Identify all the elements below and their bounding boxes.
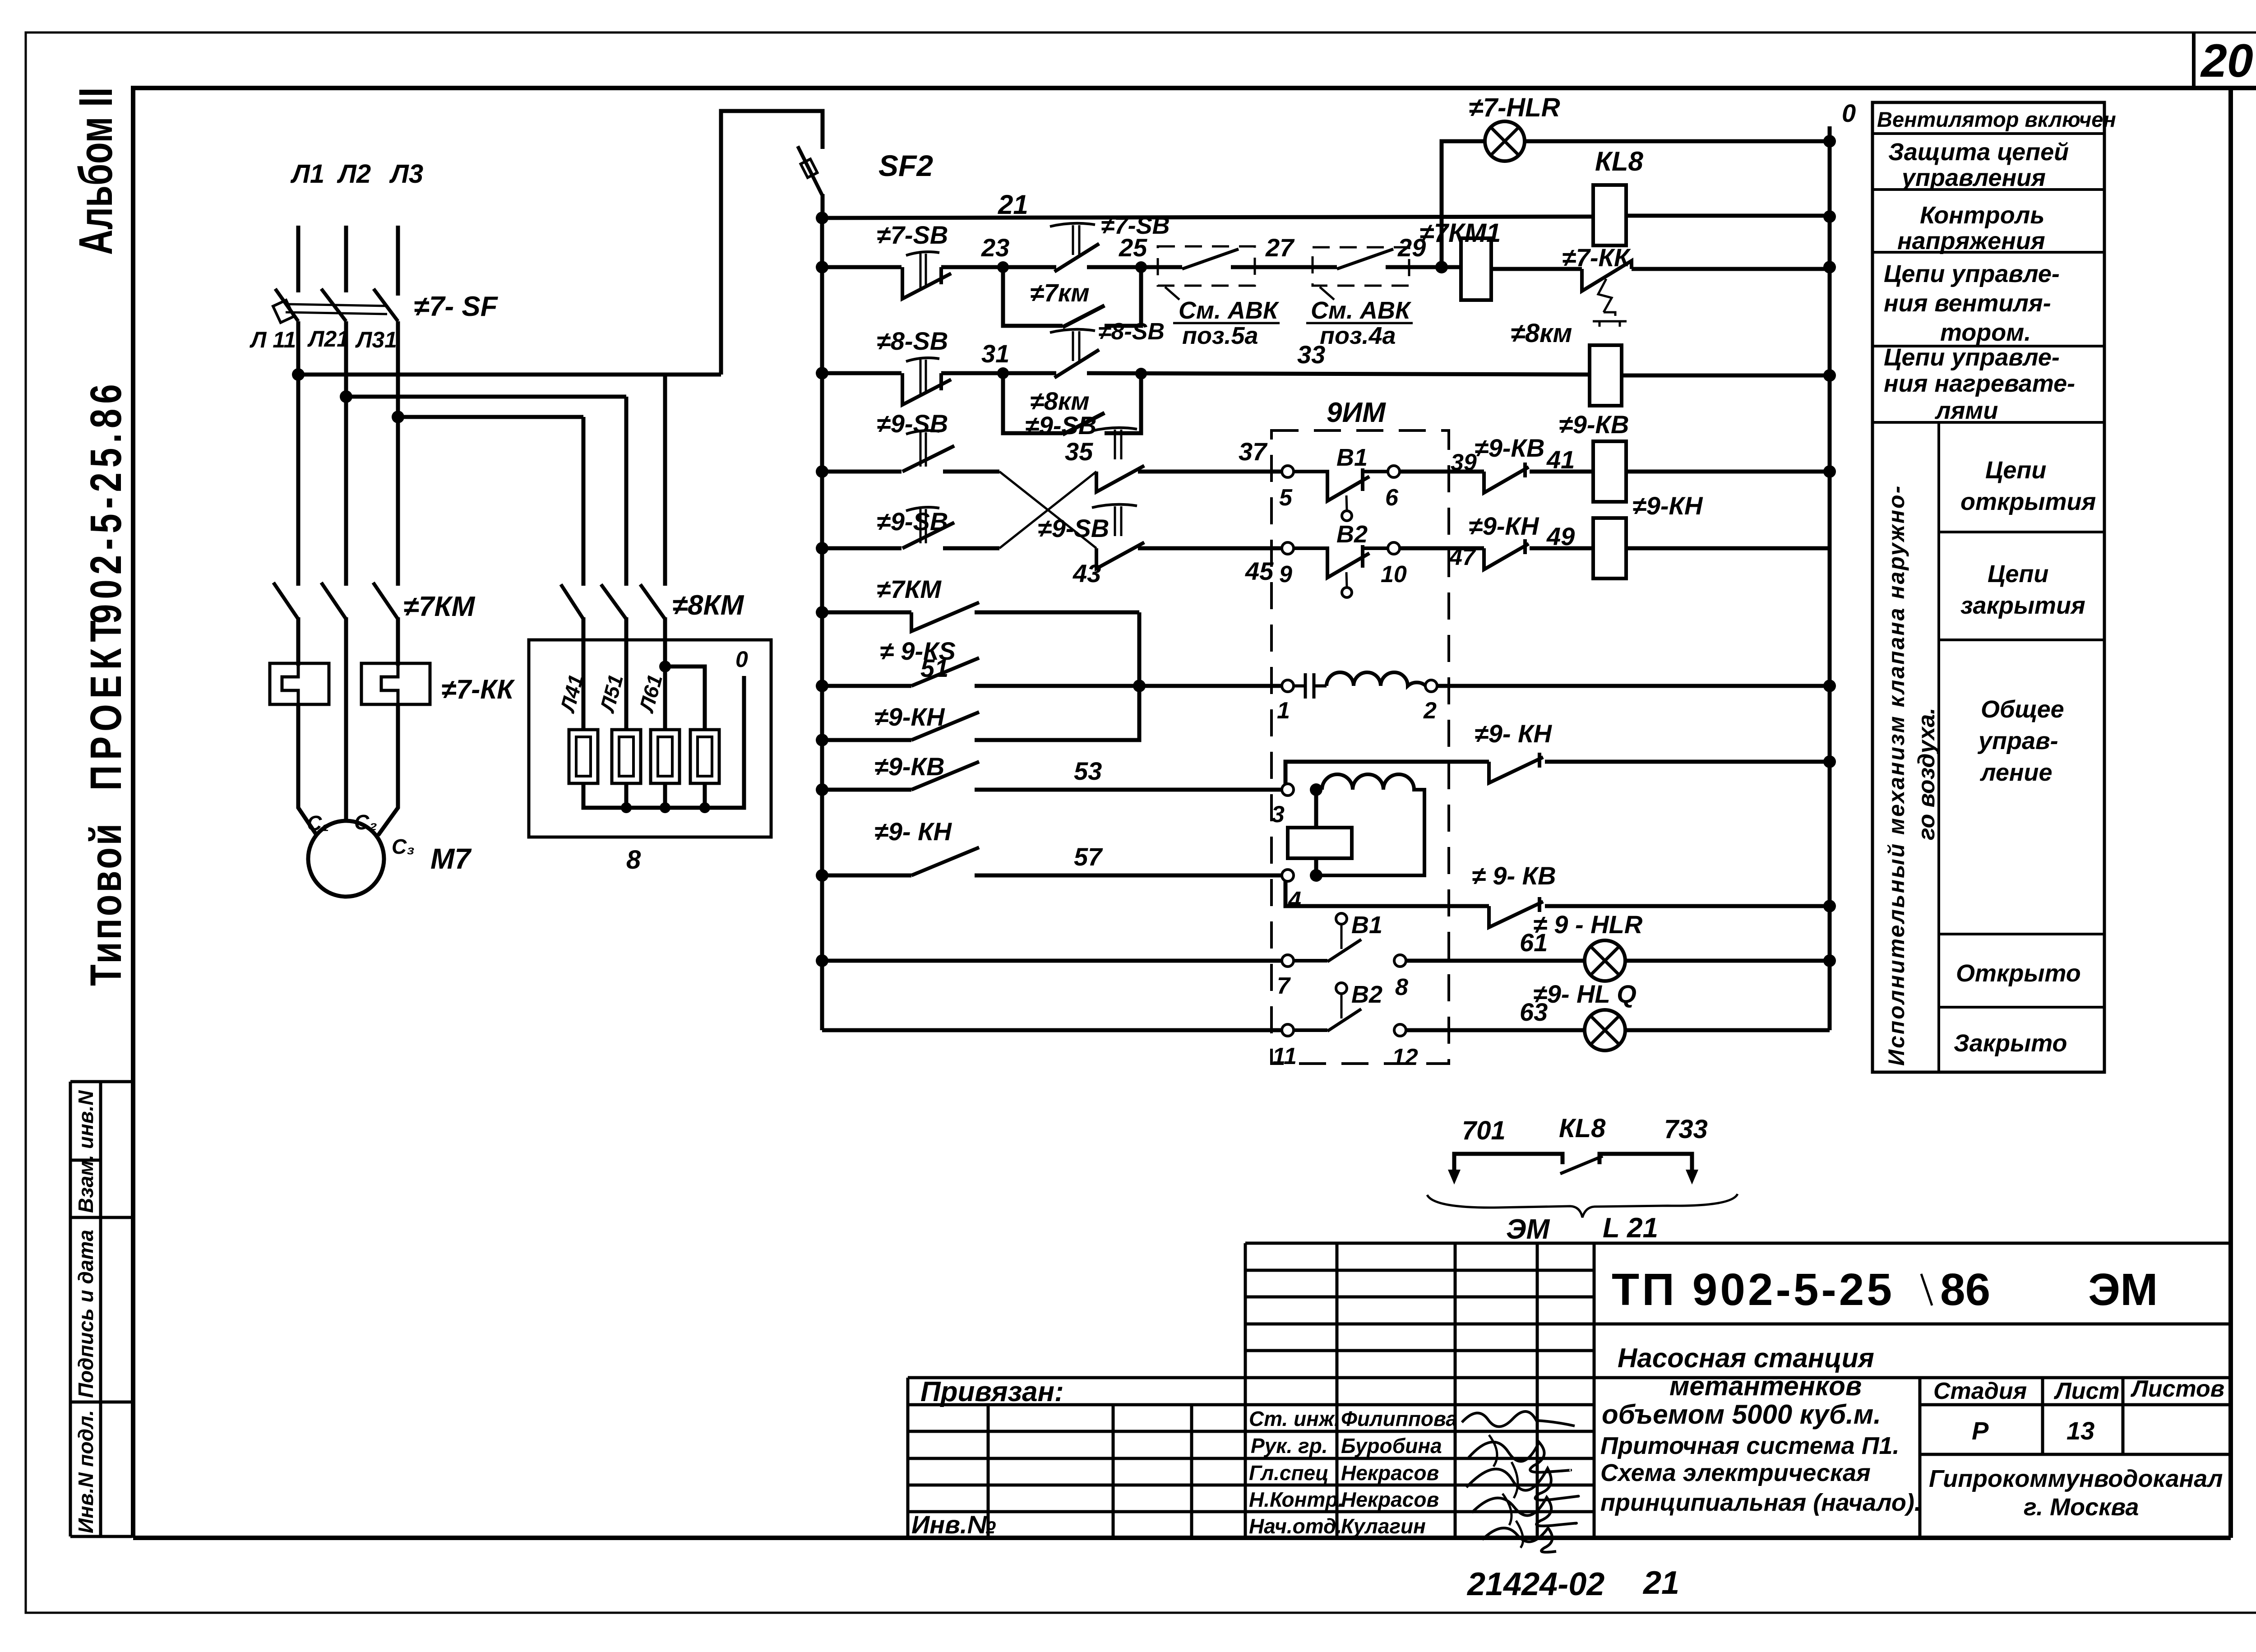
wire R6 drop (1137, 612, 1142, 686)
wire R5 b (943, 546, 999, 551)
svg-text:L 21: L 21 (1603, 1212, 1658, 1244)
aux switch B1 (1294, 913, 1361, 962)
svg-text:управ-: управ- (1977, 727, 2058, 754)
wire L31 branch (398, 415, 583, 419)
bus junction R11 (816, 954, 828, 967)
wire R10 b (975, 874, 1282, 878)
svg-text:≠ 9- КВ: ≠ 9- КВ (1472, 861, 1556, 890)
svg-text:Подпись и дата: Подпись и дата (74, 1230, 97, 1398)
bus junction R6 (816, 606, 828, 619)
actuator capacitor rect (1288, 828, 1352, 858)
wire R2 d (1255, 265, 1313, 269)
node 31 (997, 367, 1009, 379)
svg-text:6: 6 (1385, 485, 1399, 511)
svg-text:27: 27 (1265, 233, 1295, 262)
signatures (1462, 1411, 1579, 1552)
svg-text:C₃: C₃ (392, 835, 415, 858)
svg-text:лями: лями (1934, 397, 1998, 424)
bus dot R8b (1823, 755, 1836, 768)
terminal 10 (1388, 542, 1400, 554)
svg-text:Инв.№: Инв.№ (911, 1510, 996, 1539)
svg-text:Р: Р (1972, 1416, 1989, 1445)
wire heater feed1 (582, 617, 586, 731)
svg-text:SF2: SF2 (878, 149, 933, 182)
junction heater bottom4 (699, 802, 710, 813)
bus junction R10 (816, 869, 828, 882)
svg-text:Цепи: Цепи (1985, 457, 2046, 484)
svg-text:11: 11 (1272, 1043, 1297, 1069)
bus junction R4 (816, 465, 828, 478)
KL8-DIAGRAM (1427, 1114, 1738, 1245)
svg-text:33: 33 (1297, 340, 1325, 369)
svg-text:закрытия: закрытия (1960, 592, 2085, 619)
svg-text:21424-02: 21424-02 (1466, 1566, 1604, 1602)
svg-text:20: 20 (2200, 35, 2253, 87)
svg-text:КL8: КL8 (1559, 1114, 1606, 1143)
wire heater bottoms (583, 676, 744, 808)
wire R2 g (1632, 267, 1830, 271)
nc contact 9-KN3 (1489, 753, 1543, 783)
wire 10 to 47 (1400, 546, 1484, 551)
svg-text:8: 8 (1395, 974, 1408, 1000)
thermal contact 7-KK (1582, 261, 1632, 327)
svg-text:Л3: Л3 (389, 159, 423, 189)
svg-text:701: 701 (1462, 1116, 1506, 1145)
holding contact 7km branch (1003, 267, 1141, 327)
junction heater bottom3 (660, 802, 670, 813)
wire R7 a (822, 684, 911, 688)
button 7-SB stop (902, 252, 951, 299)
heater box 8 (529, 640, 771, 837)
aux contact 7KM (911, 602, 979, 631)
svg-text:≠9-SB: ≠9-SB (1025, 411, 1096, 440)
svg-text:метантенков: метантенков (1669, 1371, 1862, 1401)
lamp 7-HLR (1485, 121, 1525, 161)
contactor 8KM contacts (561, 584, 665, 619)
svg-text:Л1: Л1 (290, 159, 324, 189)
ROW-R2 (822, 212, 1830, 349)
terminal 3 (1282, 784, 1294, 796)
wire R5 a (822, 546, 901, 551)
svg-text:5: 5 (1279, 485, 1293, 511)
svg-text:Гипрокоммунводоканал: Гипрокоммунводоканал (1929, 1465, 2223, 1492)
ROW-R4-R5-SB (822, 409, 1282, 588)
wire R8 a (822, 738, 911, 742)
capacitor in 9IM (1294, 673, 1327, 699)
wire R9 a (822, 788, 911, 792)
svg-text:31: 31 (981, 339, 1009, 368)
terminal 9 (1282, 542, 1294, 554)
svg-text:ния вентиля-: ния вентиля- (1884, 290, 2051, 317)
motor M7 (308, 821, 384, 897)
svg-text:≠9-SB: ≠9-SB (1038, 514, 1109, 542)
svg-text:КL8: КL8 (1595, 146, 1644, 176)
svg-text:45: 45 (1245, 557, 1274, 585)
svg-text:C₁: C₁ (307, 811, 329, 835)
wire R9b to bus (1545, 904, 1830, 908)
wire R9 b (975, 788, 1282, 792)
svg-text:≠ 9 - НLR: ≠ 9 - НLR (1533, 910, 1643, 939)
wire R11 c (1625, 959, 1830, 963)
svg-text:Цепи: Цепи (1988, 560, 2048, 588)
wire R3 a (822, 371, 901, 375)
svg-text:Ст. инж.: Ст. инж. (1249, 1407, 1340, 1430)
svg-text:Открыто: Открыто (1956, 960, 2081, 987)
wire lamp riser (1442, 141, 1485, 267)
svg-text:Типовой: Типовой (81, 821, 130, 986)
relay coil 9-KV (1593, 441, 1626, 502)
thermal relay 7-KK element2 (361, 663, 430, 704)
wire L1 (296, 226, 300, 292)
wire heater feed3 (663, 617, 667, 731)
wire L11 to SF2 riser (298, 373, 721, 377)
bus dot R9b (1823, 900, 1836, 912)
wire L21 branch (346, 395, 626, 399)
wire R9b riser (1285, 881, 1489, 906)
svg-text:Исполнительный механизм клапан: Исполнительный механизм клапана наружно- (1884, 485, 1909, 1066)
wire 49 to coil (1530, 546, 1593, 551)
wire KK1 to motor (298, 704, 316, 834)
wire R3 c (1087, 373, 1590, 375)
wire KK2 to motor (378, 704, 398, 835)
cross wire 2 (999, 472, 1096, 548)
svg-text:го воздуха.: го воздуха. (1914, 708, 1940, 840)
svg-text:1: 1 (1277, 698, 1290, 724)
wire 21 bus (822, 217, 1593, 218)
contactor 7KM contacts (273, 583, 398, 619)
svg-text:≠7-КК: ≠7-КК (1562, 243, 1631, 272)
right bus 0 (1828, 126, 1832, 1030)
bus dot R1 (1823, 210, 1836, 223)
svg-text:Л31: Л31 (355, 327, 397, 352)
terminal 2 (1425, 680, 1437, 692)
svg-text:902-5-25.86: 902-5-25.86 (81, 379, 130, 624)
svg-text:≠9- НL Q: ≠9- НL Q (1533, 980, 1637, 1008)
wire R7 b (975, 684, 1282, 688)
svg-text:Гл.спец: Гл.спец (1249, 1461, 1329, 1485)
svg-text:Филиппова: Филиппова (1341, 1407, 1457, 1430)
bus junction R9 (816, 783, 828, 796)
relay coil 9-KN (1593, 518, 1626, 578)
actuator winding (1322, 774, 1424, 875)
svg-text:C₂: C₂ (354, 810, 377, 834)
arrow KL8 right (1686, 1170, 1698, 1185)
button 8-SB start (1050, 329, 1099, 378)
junction element4 tap (659, 661, 671, 672)
svg-text:Листов: Листов (2130, 1376, 2224, 1402)
RIGHT-LEGEND-TABLE (1872, 102, 2116, 1072)
button 9-SB up (902, 430, 954, 472)
svg-text:21: 21 (1642, 1565, 1679, 1601)
svg-text:≠7- SF: ≠7- SF (414, 291, 499, 322)
svg-text:≠9-КН: ≠9-КН (1632, 491, 1703, 520)
svg-text:13: 13 (2066, 1416, 2094, 1445)
wire R11 b (1406, 959, 1585, 963)
terminal 12 (1394, 1024, 1406, 1036)
cross wire 1 (999, 472, 1096, 548)
svg-text:53: 53 (1074, 757, 1102, 785)
sheet number box 20 (2192, 32, 2196, 88)
svg-text:Контроль: Контроль (1920, 202, 2044, 229)
relay coil KL8 (1593, 185, 1626, 245)
bus dot R7 (1823, 680, 1836, 692)
sidebar frame (70, 1082, 132, 1536)
wire SF2 to bus (821, 194, 825, 221)
ROW-R11 (822, 910, 1830, 1000)
bus junction R7 (816, 680, 828, 692)
wire R7 c (1437, 684, 1830, 688)
interlock AVK2 note (1306, 287, 1413, 349)
ROW-R9B (1285, 861, 1830, 927)
svg-text:Приточная система П1.: Приточная система П1. (1600, 1432, 1900, 1459)
button 7-SB start (1050, 223, 1099, 272)
left control bus (820, 218, 824, 1030)
svg-text:В1: В1 (1351, 912, 1382, 939)
svg-text:В1: В1 (1336, 444, 1368, 471)
svg-text:7: 7 (1277, 973, 1291, 999)
wire R2 f (1491, 267, 1582, 271)
wire 41 to coil (1530, 470, 1593, 474)
contact 9-KV2 (911, 762, 979, 790)
svg-text:0: 0 (735, 647, 748, 672)
POWER-SECTION (250, 111, 933, 897)
svg-text:поз.4а: поз.4а (1320, 322, 1396, 349)
junction L31 branch (392, 411, 404, 423)
thermal relay 7-KK element1 (270, 663, 329, 704)
wire R5 c (1138, 546, 1282, 551)
brace EM L21 (1427, 1194, 1738, 1217)
svg-text:≠7-SB: ≠7-SB (877, 221, 948, 249)
wire feed KM8 phase3 (663, 375, 667, 586)
limit switch B2 (1294, 545, 1388, 597)
limit switch B1 (1294, 468, 1388, 521)
wire R8b to bus (1545, 760, 1830, 764)
svg-text:Инв.N подл.: Инв.N подл. (74, 1410, 97, 1533)
svg-text:Некрасов: Некрасов (1341, 1488, 1439, 1511)
svg-text:9ИМ: 9ИМ (1327, 397, 1386, 428)
terminal 7 (1282, 955, 1294, 967)
svg-text:≠9-КВ: ≠9-КВ (874, 752, 944, 781)
svg-text:≠7КМ: ≠7КМ (877, 575, 942, 603)
svg-text:733: 733 (1664, 1115, 1708, 1144)
ROW-R1 (822, 146, 1830, 245)
node 33 dot (1135, 368, 1147, 379)
junction motor bottom (1310, 869, 1322, 882)
svg-text:Привязан:: Привязан: (920, 1376, 1064, 1407)
wire KV coil to bus (1626, 470, 1830, 474)
wire R11 a (822, 959, 1282, 963)
contactor coil 7KM1 (1461, 238, 1491, 300)
ROW-R8 (822, 686, 1139, 740)
svg-text:≠9-КН: ≠9-КН (874, 703, 945, 731)
svg-text:Закрыто: Закрыто (1954, 1030, 2067, 1057)
inductor in 9IM (1327, 672, 1426, 686)
svg-text:≠8км: ≠8км (1511, 319, 1572, 348)
svg-text:ление: ление (1979, 759, 2053, 786)
svg-text:г. Москва: г. Москва (2024, 1494, 2139, 1521)
wire R4 c (1138, 470, 1282, 474)
junction L11 branch (292, 368, 305, 381)
wire R6 b (975, 611, 1139, 615)
svg-text:2: 2 (1423, 698, 1437, 724)
node 23 (997, 261, 1009, 273)
wire KL8 left (1454, 1154, 1563, 1173)
svg-text:Насосная станция: Насосная станция (1618, 1343, 1874, 1373)
svg-text:39: 39 (1451, 449, 1477, 476)
nc contact 9-KV (1484, 463, 1529, 493)
svg-text:≠9-КВ: ≠9-КВ (1475, 434, 1544, 462)
contact 9-KN4 (911, 847, 979, 875)
svg-text:Л21: Л21 (307, 326, 349, 352)
holding contact 8km branch (1003, 373, 1141, 435)
wire R12 c (1625, 1028, 1830, 1032)
svg-text:≠7км: ≠7км (1030, 278, 1090, 307)
BOX-9IM (1271, 397, 1830, 1064)
wire R12 b (1406, 1028, 1585, 1032)
contact KL8 blade (1560, 1156, 1603, 1174)
contact 9-KS (911, 658, 979, 686)
svg-text:напряжения: напряжения (1897, 227, 2045, 255)
wire R2 b (941, 265, 1056, 269)
wire riser to SF2 (721, 111, 823, 375)
bus dot lamp row (1823, 135, 1836, 148)
heater element4 (690, 730, 719, 783)
interlock AVK1 note (1165, 287, 1280, 349)
svg-text:≠7КМ1: ≠7КМ1 (1419, 218, 1501, 248)
svg-text:≠8КМ: ≠8КМ (672, 590, 744, 621)
wire L3 (396, 226, 400, 296)
button 9-SB down2 (1092, 504, 1144, 569)
junction motor top (1310, 783, 1322, 796)
svg-text:≠8-SB: ≠8-SB (1098, 319, 1165, 345)
svg-text:9: 9 (1279, 561, 1292, 588)
svg-text:Цепи управле-: Цепи управле- (1884, 260, 2060, 287)
wire L31 down (396, 321, 400, 586)
svg-text:поз.5а: поз.5а (1182, 322, 1258, 349)
wire phase2 down (344, 617, 348, 822)
svg-text:≠9- КН: ≠9- КН (1475, 719, 1553, 748)
nc contact 9-KV3 (1489, 897, 1543, 927)
ROW-R7 (822, 637, 1830, 724)
node 25 (1135, 261, 1147, 273)
title block grid horizontals (908, 1243, 2231, 1512)
svg-text:См. АВК: См. АВК (1179, 297, 1280, 324)
bus dot R3 (1823, 369, 1836, 382)
svg-text:Альбом II: Альбом II (69, 88, 122, 255)
wire feed KM8 phase1 (582, 417, 586, 586)
svg-text:≠7-НLR: ≠7-НLR (1469, 93, 1560, 122)
LEFT-MARGIN-TEXTS (69, 88, 130, 986)
ROW-R9 (822, 752, 1424, 882)
heater element1 (569, 730, 598, 783)
terminal 8 (1394, 955, 1406, 967)
wire KL8 to bus (1626, 214, 1830, 218)
svg-text:4: 4 (1288, 887, 1301, 913)
svg-text:открытия: открытия (1960, 488, 2096, 515)
wire R8b riser (1285, 762, 1489, 790)
wire R2 c (1087, 265, 1158, 269)
SIDEBAR-TABLE (70, 1082, 132, 1536)
svg-text:≠8-SB: ≠8-SB (877, 327, 948, 355)
svg-text:Некрасов: Некрасов (1341, 1461, 1439, 1485)
svg-text:Стадия: Стадия (1933, 1378, 2027, 1404)
nc contact 9-KN (1484, 539, 1529, 569)
svg-text:≠7-КК: ≠7-КК (441, 674, 515, 704)
svg-text:≠9-КН: ≠9-КН (1469, 512, 1539, 540)
junction heater bottom2 (621, 802, 632, 813)
bus dot R4 (1823, 465, 1836, 478)
svg-text:Вентилятор включен: Вентилятор включен (1877, 107, 2116, 131)
svg-text:Рук. гр.: Рук. гр. (1251, 1434, 1328, 1458)
junction L21 branch (340, 390, 352, 403)
wire R4 b (943, 470, 999, 474)
wire R4 a (822, 470, 901, 474)
svg-text:Лист: Лист (2053, 1378, 2120, 1404)
contact 9-KN2 (911, 712, 979, 740)
aux switch B2 (1294, 983, 1361, 1031)
terminal 6 (1388, 466, 1400, 477)
wire KN coil to bus (1626, 546, 1830, 551)
wire L2 (344, 226, 348, 292)
terminal 5 (1282, 466, 1294, 477)
wire R10 a (822, 874, 911, 878)
heater element3 (651, 730, 680, 783)
bus dot R11 (1823, 954, 1836, 967)
svg-text:12: 12 (1392, 1044, 1418, 1070)
ROW-HLR (1435, 93, 1830, 273)
svg-text:57: 57 (1074, 842, 1103, 871)
svg-text:Буробина: Буробина (1341, 1434, 1442, 1458)
svg-text:Защита цепей: Защита цепей (1888, 139, 2069, 166)
bus junction R2 (816, 261, 828, 273)
switch SF2 (798, 146, 822, 195)
svg-text:23: 23 (981, 233, 1009, 262)
button 9-SB down (902, 507, 954, 548)
wire phase3 to KK (396, 617, 400, 666)
svg-text:8: 8 (626, 845, 641, 875)
svg-text:Н.Контр.: Н.Контр. (1249, 1488, 1344, 1511)
wire lamp to bus (1525, 139, 1830, 143)
svg-text:35: 35 (1065, 437, 1093, 466)
svg-text:0: 0 (1842, 99, 1856, 127)
bus junction R8 (816, 734, 828, 746)
svg-text:47: 47 (1449, 544, 1476, 570)
terminal 1 (1282, 680, 1294, 692)
wire KL8 right (1600, 1154, 1692, 1173)
contactor coil 8KM (1590, 345, 1622, 406)
wire feed KM8 phase2 (624, 397, 629, 586)
ROW-R6 (822, 575, 1139, 686)
wire R12 a (822, 1028, 1282, 1032)
svg-text:≠9-КВ: ≠9-КВ (1559, 410, 1629, 439)
arrow KL8 left (1448, 1170, 1461, 1185)
CONTROL-BUS-LEFT (816, 212, 828, 1030)
svg-text:3: 3 (1271, 801, 1285, 828)
bus dot R2 (1823, 261, 1836, 273)
svg-text:10: 10 (1381, 561, 1407, 588)
wire cap bottom (1314, 858, 1318, 875)
svg-text:ТП 902-5-25: ТП 902-5-25 (1612, 1264, 1895, 1315)
wire R6 a (822, 611, 911, 615)
ROW-R10 (822, 817, 1301, 913)
svg-text:≠9- КН: ≠9- КН (874, 817, 952, 846)
ROW-R12 (822, 980, 1830, 1070)
svg-text:тором.: тором. (1940, 319, 2031, 346)
wire phase1 to KK (296, 617, 300, 666)
ROW-R3 (822, 319, 1830, 435)
svg-text:Схема электрическая: Схема электрическая (1600, 1459, 1871, 1486)
svg-text:управления: управления (1900, 164, 2046, 191)
